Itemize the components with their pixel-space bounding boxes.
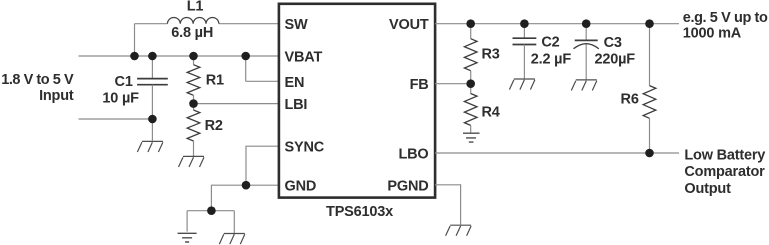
wire left ground drop <box>186 211 188 232</box>
svg-text:C1: C1 <box>115 74 133 90</box>
svg-text:LBI: LBI <box>285 97 308 113</box>
resistor R2 <box>187 110 200 141</box>
wire LBI line <box>194 103 280 105</box>
svg-text:R2: R2 <box>205 118 223 134</box>
wire EN line <box>246 80 279 82</box>
svg-text:C2: C2 <box>541 34 559 50</box>
wire PGND line <box>435 185 461 225</box>
svg-text:FB: FB <box>410 77 429 93</box>
wire input bottom stub <box>79 118 153 120</box>
wire R1 top lead <box>193 56 195 65</box>
resistor R1 <box>187 65 200 96</box>
wire input top stub to VBAT rail <box>79 55 280 57</box>
wire C1 top lead <box>151 56 153 78</box>
wire R2 top lead <box>193 104 195 110</box>
svg-text:LBO: LBO <box>398 147 428 163</box>
node VBAT-EN junction <box>241 52 250 61</box>
wire C2 top lead <box>523 24 525 38</box>
ground under C2 <box>509 79 535 90</box>
svg-text:Low Battery: Low Battery <box>684 148 765 164</box>
svg-text:R1: R1 <box>206 72 224 88</box>
svg-text:Input: Input <box>39 88 74 104</box>
capacitor C1 <box>137 79 168 85</box>
svg-text:EN: EN <box>285 75 305 91</box>
wire C1 bottom lead <box>151 85 153 141</box>
node VOUT-C3 junction <box>582 19 591 28</box>
svg-text:R4: R4 <box>482 105 500 121</box>
node VBAT-C1 junction <box>148 52 157 61</box>
svg-text:1.8 V to 5 V: 1.8 V to 5 V <box>1 72 74 88</box>
svg-text:VOUT: VOUT <box>389 17 429 33</box>
wire FB line <box>435 83 471 85</box>
node VOUT-C2 junction <box>520 19 529 28</box>
svg-text:R6: R6 <box>621 91 639 107</box>
node VBAT-L1 junction <box>130 52 139 61</box>
wire R1 bottom lead <box>193 95 195 103</box>
wire SW line left segment <box>135 23 168 25</box>
ground under C1 <box>137 141 163 152</box>
resistor R3 <box>464 39 477 71</box>
node input ground junction <box>148 115 157 124</box>
wire R4 top lead <box>470 84 472 94</box>
capacitor C3 polarized <box>575 39 598 41</box>
svg-text:220µF: 220µF <box>595 51 636 67</box>
ground under C3 <box>571 80 597 91</box>
ground under PGND <box>446 225 472 236</box>
svg-text:L1: L1 <box>187 0 204 14</box>
svg-text:SW: SW <box>285 17 308 33</box>
node ground bus junction <box>207 206 216 215</box>
svg-text:1000 mA: 1000 mA <box>683 26 742 42</box>
svg-text:C3: C3 <box>604 35 622 51</box>
wire SW line right segment <box>219 23 279 25</box>
svg-text:PGND: PGND <box>387 178 428 194</box>
node FB junction <box>466 79 475 88</box>
wire C3 top lead <box>585 24 587 41</box>
wire EN vertical drop <box>245 56 247 81</box>
wire R2 bottom lead <box>193 141 195 156</box>
wire R6 bottom lead <box>649 118 651 153</box>
svg-text:R3: R3 <box>482 47 500 63</box>
capacitor C2 <box>513 38 537 44</box>
node VOUT-R3 junction <box>466 19 475 28</box>
resistor R6 <box>643 86 656 119</box>
node GND-SYNC junction <box>242 181 251 190</box>
ground under R2 <box>179 156 205 167</box>
wire L1 left vertical drop <box>134 24 136 56</box>
svg-text:Output: Output <box>684 181 731 197</box>
op-amp U1 TPS6103x box <box>279 4 435 198</box>
wire LBO line <box>435 152 679 154</box>
wire SYNC line <box>246 146 279 185</box>
wire C3 bottom lead <box>585 45 587 80</box>
wire C2 bottom lead <box>523 45 525 79</box>
wire R3 bottom lead <box>470 71 472 84</box>
node LBO-R6 junction <box>645 149 654 158</box>
resistor R4 <box>464 94 477 126</box>
wire GND line <box>211 185 279 211</box>
svg-text:e.g. 5 V up to: e.g. 5 V up to <box>683 10 768 26</box>
wire right ground drop <box>233 211 235 233</box>
wire ground bus horizontal <box>187 210 234 212</box>
ground chassis bottom middle <box>219 234 245 245</box>
svg-text:TPS6103x: TPS6103x <box>326 204 393 220</box>
inductor L1 <box>167 17 219 23</box>
svg-text:SYNC: SYNC <box>285 140 325 156</box>
svg-text:GND: GND <box>285 179 317 195</box>
ground signal left (3-bar) <box>178 233 197 242</box>
node VOUT-R6 junction <box>645 19 654 28</box>
wire R6 top lead <box>649 24 651 86</box>
wire R3 top lead <box>470 24 472 39</box>
wire R4 bottom lead <box>470 125 472 132</box>
svg-text:Comparator: Comparator <box>684 164 765 180</box>
svg-text:6.8 µH: 6.8 µH <box>171 25 213 41</box>
svg-text:2.2 µF: 2.2 µF <box>531 52 572 68</box>
svg-text:VBAT: VBAT <box>285 50 323 66</box>
node VBAT-R1 junction <box>189 52 198 61</box>
wire VOUT rail <box>435 23 679 25</box>
node LBI junction <box>189 99 198 108</box>
svg-text:10 µF: 10 µF <box>102 90 139 106</box>
ground signal under R4 (3-bar) <box>463 133 480 142</box>
